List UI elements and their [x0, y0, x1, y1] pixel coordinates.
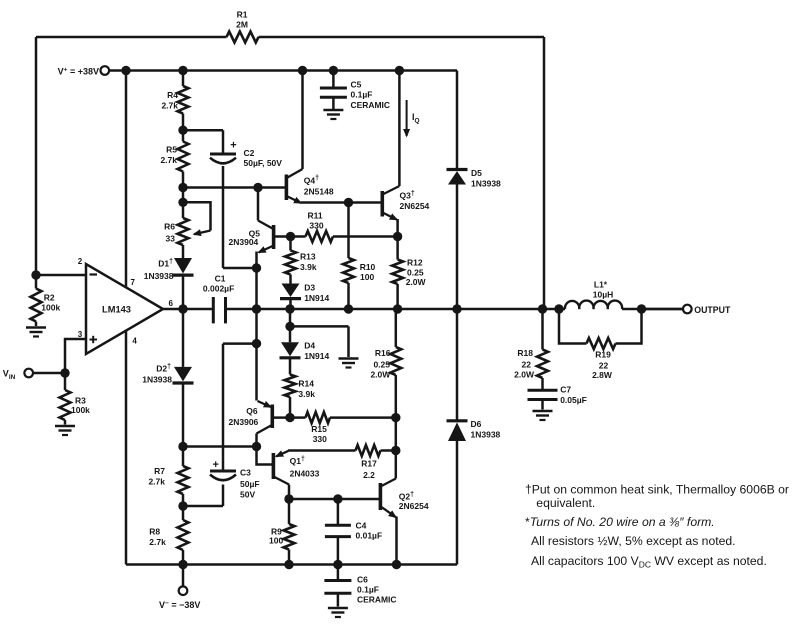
- svg-text:22: 22: [599, 361, 609, 371]
- svg-text:50µF: 50µF: [240, 479, 260, 489]
- svg-text:0.01µF: 0.01µF: [356, 531, 383, 541]
- svg-text:0.25: 0.25: [407, 268, 424, 278]
- svg-text:3.9k: 3.9k: [300, 262, 317, 272]
- svg-text:0.05µF: 0.05µF: [560, 395, 587, 405]
- svg-text:C7: C7: [560, 385, 571, 395]
- svg-text:2.0W: 2.0W: [406, 277, 427, 287]
- svg-text:R19: R19: [595, 350, 611, 360]
- svg-text:1N3938: 1N3938: [471, 430, 501, 440]
- svg-text:R10: R10: [360, 262, 376, 272]
- svg-text:R17: R17: [361, 459, 377, 469]
- svg-text:2N6254: 2N6254: [400, 201, 430, 211]
- svg-text:L1*: L1*: [594, 280, 608, 290]
- svg-text:+: +: [230, 140, 236, 152]
- svg-text:50µF, 50V: 50µF, 50V: [244, 158, 283, 168]
- svg-text:R3: R3: [75, 396, 86, 406]
- svg-text:R16: R16: [375, 348, 391, 358]
- svg-text:2.8W: 2.8W: [592, 370, 613, 380]
- svg-text:4: 4: [132, 337, 137, 346]
- svg-text:+: +: [212, 459, 218, 471]
- svg-text:0.25: 0.25: [373, 360, 390, 370]
- svg-text:1N3938: 1N3938: [144, 271, 174, 281]
- svg-text:33: 33: [166, 234, 176, 244]
- svg-text:R18: R18: [517, 348, 533, 358]
- svg-text:100k: 100k: [71, 405, 90, 415]
- svg-text:R11: R11: [307, 211, 322, 221]
- svg-text:R13: R13: [300, 252, 316, 262]
- svg-text:2.2: 2.2: [363, 470, 375, 480]
- svg-text:7: 7: [131, 278, 136, 287]
- svg-text:3: 3: [78, 330, 83, 339]
- svg-text:50V: 50V: [240, 490, 255, 500]
- svg-text:2.7k: 2.7k: [161, 101, 178, 111]
- svg-text:100k: 100k: [41, 303, 60, 313]
- svg-text:CERAMIC: CERAMIC: [351, 100, 391, 110]
- svg-text:2.7k: 2.7k: [160, 155, 177, 165]
- svg-text:22: 22: [522, 360, 532, 370]
- svg-text:All resistors ½W, 5% except as: All resistors ½W, 5% except as noted.: [531, 534, 736, 548]
- svg-text:R12: R12: [407, 258, 423, 268]
- svg-text:2N5148: 2N5148: [304, 187, 334, 197]
- svg-text:0.1µF: 0.1µF: [357, 585, 379, 595]
- svg-text:†Put on common heat sink, Ther: †Put on common heat sink, Thermalloy 600…: [525, 483, 789, 497]
- svg-text:C2: C2: [244, 148, 255, 158]
- svg-text:C1: C1: [215, 274, 226, 284]
- svg-text:1N914: 1N914: [304, 293, 329, 303]
- svg-text:D3: D3: [304, 283, 315, 293]
- svg-text:R2: R2: [44, 293, 55, 303]
- svg-text:R5: R5: [166, 145, 177, 155]
- svg-text:OUTPUT: OUTPUT: [694, 305, 730, 316]
- svg-text:2N3904: 2N3904: [229, 237, 259, 247]
- svg-text:R6: R6: [164, 222, 175, 232]
- svg-text:1N914: 1N914: [304, 351, 329, 361]
- svg-text:2.7k: 2.7k: [149, 537, 166, 547]
- svg-text:2: 2: [78, 257, 83, 266]
- svg-text:0.002µF: 0.002µF: [203, 284, 234, 294]
- svg-text:equivalent.: equivalent.: [536, 496, 595, 510]
- svg-text:2N4033: 2N4033: [290, 469, 320, 479]
- svg-text:1N3938: 1N3938: [142, 375, 172, 385]
- svg-text:3.9k: 3.9k: [298, 389, 315, 399]
- svg-text:2.0W: 2.0W: [514, 370, 535, 380]
- svg-text:R7: R7: [154, 466, 165, 476]
- svg-text:C3: C3: [240, 468, 251, 478]
- svg-text:2.0W: 2.0W: [370, 370, 391, 380]
- svg-text:R15: R15: [311, 424, 327, 434]
- svg-text:D5: D5: [471, 168, 482, 178]
- svg-text:*Turns of No. 20 wire on a ⅜″: *Turns of No. 20 wire on a ⅜″ form.: [525, 515, 715, 529]
- svg-text:100: 100: [360, 272, 374, 282]
- svg-text:1N3938: 1N3938: [471, 179, 501, 189]
- svg-text:CERAMIC: CERAMIC: [357, 595, 397, 605]
- svg-text:2N6254: 2N6254: [399, 501, 429, 511]
- svg-text:C6: C6: [357, 575, 368, 585]
- svg-text:330: 330: [313, 434, 327, 444]
- svg-text:C4: C4: [356, 521, 367, 531]
- svg-text:6: 6: [169, 299, 174, 308]
- svg-text:C5: C5: [351, 80, 362, 90]
- svg-text:R8: R8: [149, 527, 160, 537]
- svg-text:Q6: Q6: [246, 406, 258, 416]
- svg-text:D6: D6: [471, 419, 482, 429]
- svg-text:2M: 2M: [236, 20, 248, 30]
- svg-text:2N3906: 2N3906: [229, 417, 259, 427]
- svg-text:LM143: LM143: [102, 304, 131, 314]
- svg-text:0.1µF: 0.1µF: [351, 90, 373, 100]
- svg-text:10µH: 10µH: [593, 290, 614, 300]
- svg-text:R1: R1: [237, 10, 248, 20]
- svg-text:D4: D4: [304, 341, 315, 351]
- svg-text:100: 100: [269, 536, 283, 546]
- svg-text:330: 330: [309, 221, 323, 231]
- svg-text:R4: R4: [167, 90, 178, 100]
- svg-text:R14: R14: [298, 379, 314, 389]
- svg-text:2.7k: 2.7k: [148, 477, 165, 487]
